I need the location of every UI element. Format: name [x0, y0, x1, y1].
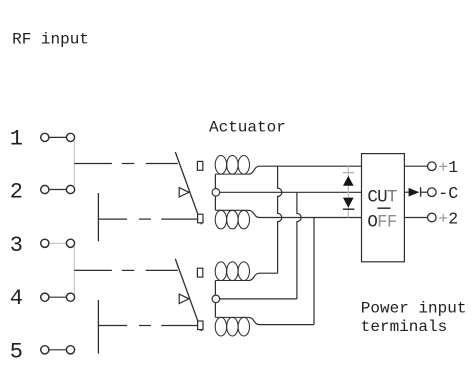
terminal +2 circle — [428, 213, 437, 222]
wire +2 line — [260, 217, 362, 219]
terminal 3 circles — [41, 239, 75, 247]
wire coil L2 right lead — [249, 210, 260, 217]
wire linkage A dashed line — [98, 218, 197, 220]
svg-text:CUT: CUT — [367, 187, 397, 207]
wire terminal 2 link — [49, 189, 67, 191]
svg-text:3: 3 — [10, 233, 23, 258]
actuator bar A — [97, 193, 99, 241]
coil L3 — [215, 262, 249, 281]
wire pole B dashed line — [74, 269, 178, 271]
node center tap upper — [212, 189, 220, 197]
terminal -C circle — [428, 188, 437, 197]
wire coil3-coil4 left leads — [214, 281, 216, 318]
node center tap lower — [212, 295, 220, 303]
wire vertical v1 with hops — [278, 166, 282, 273]
actuator bar B — [97, 300, 99, 354]
wire junction terminals 3-4 — [73, 247, 75, 295]
wire linkage B dashed line — [98, 325, 197, 327]
wire coil L1 right lead — [249, 166, 260, 174]
wire terminal 3 link — [49, 242, 67, 244]
svg-text:-C: -C — [438, 184, 458, 203]
wire terminal 4 link — [49, 296, 67, 298]
svg-text:Actuator: Actuator — [209, 118, 286, 136]
diode D1 (up) — [343, 173, 354, 186]
wire +1 line — [260, 165, 362, 167]
svg-text:1: 1 — [10, 126, 23, 151]
wire vertical v3 — [313, 218, 315, 325]
contact rect B upper — [197, 268, 202, 277]
contact rect A upper — [197, 161, 202, 170]
terminal 4 circles — [41, 293, 75, 301]
wire -C lower line — [220, 298, 297, 300]
wire vertical v2 with hop — [297, 192, 301, 299]
wire pole A dashed line — [74, 163, 178, 165]
arrow on blade A — [179, 188, 189, 197]
switch blade A — [175, 152, 201, 224]
svg-text:+2: +2 — [438, 209, 458, 228]
wire terminal 5 link — [49, 349, 67, 351]
coil L2 — [215, 210, 249, 229]
svg-text:terminals: terminals — [361, 318, 447, 336]
wire coil L4 right lead — [249, 317, 315, 324]
coil L4 — [215, 317, 249, 336]
svg-text:2: 2 — [10, 180, 23, 205]
switch blade B — [175, 259, 201, 331]
cut-off box U1 — [362, 154, 405, 262]
wire diode stack vertical — [347, 166, 349, 217]
terminal 1 circles — [41, 133, 75, 141]
svg-text:4: 4 — [10, 286, 23, 311]
coil L1 — [215, 156, 249, 175]
wire coil L3 right lead — [249, 273, 278, 280]
diode D3 (right) — [409, 187, 428, 196]
terminal 5 circles — [41, 346, 75, 354]
svg-text:RF input: RF input — [12, 31, 89, 49]
wire box to +1 terminal — [404, 165, 427, 167]
svg-text:OFF: OFF — [367, 212, 397, 232]
wire junction terminals 1-2 — [73, 141, 75, 187]
wire box to diode D3 — [404, 191, 408, 193]
wire terminal 1 link — [49, 136, 67, 138]
contact rect B lower — [198, 321, 203, 330]
svg-text:Power input: Power input — [361, 300, 467, 318]
wire coil1-coil2 left leads — [214, 174, 216, 210]
wire box to +2 terminal — [404, 217, 427, 219]
diode D2 (down) — [343, 198, 354, 210]
terminal 2 circles — [41, 185, 75, 193]
contact rect A lower — [198, 214, 203, 223]
terminal +1 circle — [428, 162, 437, 171]
hyphen between CUT and OFF — [378, 207, 391, 209]
svg-text:5: 5 — [10, 339, 23, 364]
svg-text:+1: +1 — [438, 158, 458, 177]
arrow on blade B — [179, 294, 189, 303]
wire -C upper line — [220, 191, 362, 193]
